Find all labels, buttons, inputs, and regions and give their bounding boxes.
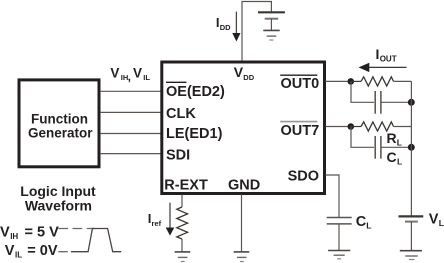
- pin VDD: [234, 64, 255, 82]
- resistor (OUT0 load): [351, 77, 411, 86]
- svg-text:V: V: [133, 65, 142, 80]
- current arrow IOUT: [359, 46, 407, 72]
- svg-text:R-EXT: R-EXT: [164, 177, 208, 193]
- ground (VL): [400, 251, 422, 260]
- svg-text:Generator: Generator: [28, 126, 93, 141]
- svg-text:IH: IH: [10, 232, 18, 241]
- svg-text:OUT7: OUT7: [281, 123, 320, 139]
- node junction OUT0: [348, 78, 355, 85]
- wire cap to rail OUT7: [381, 146, 412, 148]
- current arrow IDD: [216, 12, 241, 42]
- ground (SDO CL): [328, 251, 350, 259]
- svg-text:= 0V: = 0V: [27, 243, 58, 259]
- svg-text:,: ,: [128, 69, 131, 83]
- IC U1 (device under test): [162, 62, 325, 194]
- waveform low dashed line: [58, 251, 68, 253]
- svg-text:LE(ED1): LE(ED1): [166, 126, 223, 142]
- svg-text:Logic Input: Logic Input: [20, 183, 96, 199]
- svg-text:GND: GND: [228, 177, 260, 193]
- battery VDD supply: [258, 12, 285, 30]
- svg-text:CLK: CLK: [166, 106, 196, 122]
- svg-text:V: V: [0, 224, 10, 240]
- svg-text:Function: Function: [31, 111, 88, 126]
- svg-text:IL: IL: [143, 73, 150, 82]
- svg-text:C: C: [387, 149, 397, 165]
- svg-text:SDI: SDI: [166, 148, 190, 164]
- pin OE(ED2): [166, 82, 225, 100]
- svg-text:L: L: [439, 218, 444, 228]
- node VIH,VIL label: [110, 65, 150, 83]
- svg-text:V: V: [429, 212, 439, 228]
- waveform high dashed line: [58, 228, 95, 230]
- capacitor CL (OUT7 load): [375, 136, 402, 167]
- function generator box: [19, 80, 99, 167]
- svg-text:ref: ref: [152, 219, 162, 228]
- wire right rail: [410, 81, 412, 216]
- svg-text:SDO: SDO: [288, 168, 319, 184]
- wire OUT0: [326, 80, 352, 82]
- resistor R-EXT: [177, 207, 188, 239]
- svg-text:L: L: [397, 157, 402, 167]
- current arrow Iref: [148, 203, 175, 236]
- svg-text:L: L: [366, 221, 371, 231]
- svg-text:V: V: [110, 65, 119, 80]
- svg-text:= 5 V: = 5 V: [25, 224, 60, 240]
- svg-text:DD: DD: [243, 73, 254, 82]
- svg-text:V: V: [5, 243, 15, 259]
- svg-text:Waveform: Waveform: [25, 198, 92, 214]
- ground (top supply): [263, 30, 279, 40]
- svg-text:OUT: OUT: [380, 55, 397, 64]
- waveform pulse: [71, 229, 121, 252]
- wire cap branch OUT0: [351, 81, 374, 102]
- wire CL to ground: [338, 224, 340, 251]
- svg-text:C: C: [356, 214, 367, 230]
- ground (GND pin): [234, 252, 250, 262]
- capacitor CL (SDO): [327, 214, 372, 231]
- wire VDD to supply: [242, 2, 271, 61]
- wire LE from generator: [100, 133, 162, 135]
- node junction rail OUT0: [408, 99, 415, 106]
- wire OE from generator: [100, 90, 162, 92]
- wire SDI from generator: [100, 153, 162, 155]
- wire SDO to CL: [326, 175, 340, 217]
- wire GND down: [241, 195, 243, 252]
- wire cap to rail OUT0: [381, 101, 412, 103]
- svg-text:DD: DD: [220, 23, 231, 32]
- capacitor (OUT0 load): [375, 91, 381, 114]
- svg-text:OE(ED2): OE(ED2): [166, 84, 225, 100]
- svg-text:V: V: [234, 64, 244, 80]
- svg-text:R: R: [387, 130, 397, 146]
- battery VL: [399, 212, 444, 251]
- pin OUT7: [280, 122, 319, 140]
- node VIH = 5 V label: [0, 224, 59, 241]
- node junction OUT7: [348, 123, 355, 130]
- wire R-EXT down: [181, 195, 183, 208]
- wire CLK from generator: [100, 111, 162, 113]
- node VIL = 0V label: [5, 243, 58, 260]
- svg-text:L: L: [397, 138, 402, 148]
- wire OUT7: [326, 126, 352, 128]
- wire resistor to ground: [181, 239, 183, 252]
- pin OUT0: [280, 75, 319, 92]
- svg-text:IL: IL: [15, 251, 22, 260]
- ground (R-EXT): [175, 252, 191, 262]
- node junction rail OUT7: [408, 144, 415, 151]
- svg-text:OUT0: OUT0: [281, 76, 320, 92]
- logic input waveform title: [20, 183, 96, 214]
- resistor RL (OUT7 load): [351, 122, 411, 148]
- wire cap branch OUT7: [351, 127, 374, 148]
